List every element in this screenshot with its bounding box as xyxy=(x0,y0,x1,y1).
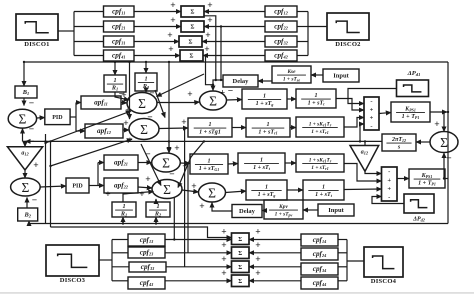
svg-text:−: − xyxy=(169,170,174,180)
svg-text:1 + sTt: 1 + sTt xyxy=(308,101,326,107)
wire diagonal into governor summer G1 xyxy=(157,74,205,97)
wire a12 right feed xyxy=(364,141,366,145)
junction xyxy=(168,140,170,142)
wire ptie branch vertical V1 xyxy=(45,134,47,224)
wire cpf42 to summer S4 xyxy=(203,55,265,57)
junction xyxy=(364,140,366,142)
svg-text:1 + sTt: 1 + sTt xyxy=(253,165,271,171)
wire governor1 to turbine1 xyxy=(287,98,296,100)
junction xyxy=(44,142,46,144)
wire splitter to apf22 xyxy=(98,185,104,187)
summer G1 xyxy=(127,93,157,114)
junction xyxy=(122,222,124,224)
block 1/R2 bottom xyxy=(146,202,170,218)
summer ACE1 xyxy=(8,109,36,128)
svg-text:+: + xyxy=(221,241,226,251)
svg-text:Delay: Delay xyxy=(239,208,256,215)
bottom summer B2 box xyxy=(232,247,250,259)
svg-text:Σ: Σ xyxy=(440,135,448,150)
wire cpf23 to bottom summer B2 xyxy=(165,252,232,254)
svg-text:R2: R2 xyxy=(154,211,162,218)
junction xyxy=(49,140,51,142)
svg-text:KPS1: KPS1 xyxy=(421,173,433,179)
svg-text:-: - xyxy=(370,98,372,105)
svg-text:1: 1 xyxy=(265,184,268,190)
wire apf11 to governor summer G1 xyxy=(121,102,127,105)
wire ptie into power summer1 xyxy=(360,124,364,141)
gain a12 right xyxy=(350,146,379,172)
junction xyxy=(168,61,170,63)
wire delta-Ptie left arrowhead xyxy=(26,140,35,142)
block governor Tg1 xyxy=(188,118,232,137)
wire bus to cpf23 xyxy=(112,252,128,254)
junction xyxy=(173,238,175,240)
wire ACE summer1 to PID1 xyxy=(37,117,45,120)
wire diagonal ptie to area2 summer xyxy=(178,141,204,187)
svg-text:+: + xyxy=(191,182,196,192)
wire cpf22 to summer S2 xyxy=(204,26,265,28)
svg-text:+: + xyxy=(181,118,186,128)
wire branch bus vertical xyxy=(73,12,75,56)
wire Tg1 to Tr1 xyxy=(232,127,246,129)
svg-text:−: − xyxy=(29,99,34,109)
block apf11 xyxy=(81,96,121,109)
svg-text:Σ: Σ xyxy=(162,155,170,170)
svg-text:+: + xyxy=(123,119,128,129)
wire PID2 splitter vertical xyxy=(97,163,99,186)
wire DISCO4 branch bus xyxy=(346,240,348,281)
block Input1 xyxy=(323,69,359,82)
block KPS2 xyxy=(409,169,445,188)
svg-text:+: + xyxy=(434,120,439,130)
svg-text:PID: PID xyxy=(72,184,83,190)
wire DISCO3 branch bus xyxy=(111,240,113,281)
wire a12 right to power summer2 xyxy=(365,171,382,173)
wire B2 up to ACE summer2 xyxy=(26,198,28,209)
wire turbine summer D to governor2 xyxy=(226,191,247,193)
svg-text:+: + xyxy=(33,161,38,171)
svg-text:Σ: Σ xyxy=(190,54,194,60)
svg-text:+: + xyxy=(255,241,260,251)
block turbine3 xyxy=(303,180,344,200)
wire delta-f1 right bus xyxy=(447,62,449,224)
source deltaPd2 step xyxy=(404,194,434,213)
power summer 1 xyxy=(364,97,379,130)
junction xyxy=(28,222,30,224)
svg-text:+: + xyxy=(387,185,391,192)
block cpf13 xyxy=(128,234,165,246)
svg-text:+: + xyxy=(387,177,391,184)
svg-text:R1: R1 xyxy=(111,85,118,92)
svg-text:1: 1 xyxy=(260,157,263,163)
svg-text:a12: a12 xyxy=(21,151,29,157)
wire PID2 to splitter xyxy=(89,185,98,187)
block reheat2 xyxy=(296,154,344,172)
wire ptie branch vertical V2 xyxy=(50,141,52,227)
svg-text:KPS1: KPS1 xyxy=(404,106,416,112)
wire 1/R1 bottom to summer 2B xyxy=(123,192,154,203)
wire bus to cpf11 xyxy=(74,11,103,13)
block Delay2 xyxy=(232,205,262,218)
svg-text:R1: R1 xyxy=(120,211,127,218)
wire summer S4 output drop xyxy=(206,56,214,85)
junction xyxy=(49,165,51,167)
wire bus to cpf33 xyxy=(112,266,129,268)
svg-text:-: - xyxy=(370,123,372,130)
svg-text:Σ: Σ xyxy=(238,279,242,285)
summer G2 xyxy=(129,119,159,140)
wire branch down from 2T output xyxy=(187,164,189,253)
wire summer 2T to block TG1 xyxy=(181,162,191,165)
block 1/R1 xyxy=(104,75,126,92)
wire Input2 to Kpv block xyxy=(303,209,318,211)
svg-text:−: − xyxy=(119,90,124,100)
svg-text:1: 1 xyxy=(122,203,125,210)
svg-text:+: + xyxy=(199,202,204,212)
svg-text:DISCO2: DISCO2 xyxy=(335,41,361,48)
wire delta-f2 into 1/R1 bottom xyxy=(122,217,124,224)
wire Tr1 to reheat1 xyxy=(290,127,296,129)
summer S3 box xyxy=(179,36,202,47)
summer A xyxy=(200,91,227,110)
wire apf22 to summer 2B xyxy=(138,187,152,188)
wire Delay2 to turbine summer D xyxy=(212,203,232,212)
wire cpf13 to bottom summer B1 xyxy=(165,239,232,241)
block 1/R2 xyxy=(135,73,157,91)
wire power summer1 to KPS1 xyxy=(379,113,391,114)
block tie line 2piT12/s xyxy=(382,134,416,151)
junction xyxy=(128,61,130,63)
wire diagonal to governor summer G1 xyxy=(46,111,132,143)
wire a12 to ACE summer 2 xyxy=(24,170,26,178)
wire DISCO4 to bus xyxy=(347,260,364,262)
wire tie summer to 2piT12 block xyxy=(416,141,430,143)
block cpf14 xyxy=(301,234,338,246)
wire delta-f1 into summer 2T xyxy=(168,141,170,153)
svg-text:−: − xyxy=(147,113,152,123)
scan edge artifact xyxy=(0,292,474,294)
svg-text:1 + sTr1: 1 + sTr1 xyxy=(311,165,328,171)
svg-text:+: + xyxy=(221,269,226,279)
wire bus to cpf41 xyxy=(74,55,103,57)
wire governor summer G2 to governor block Tg1 xyxy=(160,127,189,130)
svg-text:+: + xyxy=(207,1,212,11)
svg-text:+: + xyxy=(221,228,226,238)
wire delta-f1 down to governor summer G2 xyxy=(129,62,131,119)
junction xyxy=(155,222,157,224)
block Kpv xyxy=(264,200,303,219)
wire TG1 to turbine2 xyxy=(228,163,238,166)
junction xyxy=(443,111,445,113)
svg-text:1: 1 xyxy=(314,93,317,99)
summer 2T xyxy=(152,153,181,172)
svg-text:2πT12: 2πT12 xyxy=(391,137,406,143)
wire apf12 to governor summer G2 xyxy=(123,129,129,131)
junction xyxy=(447,111,449,113)
wire branch down from 2B rim xyxy=(173,197,175,240)
wire turbine summer A to governor 1 xyxy=(227,99,243,102)
wire DISCO2 to bus xyxy=(308,26,327,28)
svg-text:+: + xyxy=(370,115,374,122)
wire deltaPd2 to power summer2 xyxy=(372,197,404,204)
svg-text:Σ: Σ xyxy=(163,182,171,197)
wire bus to cpf34 xyxy=(338,266,347,268)
wire diagonal demand to area2 summer xyxy=(141,144,161,186)
wire bus to cpf43 xyxy=(112,280,128,282)
bottom summer B4 box xyxy=(232,275,250,287)
power summer 2 xyxy=(382,167,398,201)
wire splitter to apf12 xyxy=(76,130,85,132)
block B1 xyxy=(15,86,37,98)
block 1/R1 bottom xyxy=(112,202,136,218)
wire delta-Ptie down into a12 gain xyxy=(24,141,26,146)
wire cpf44 to bottom summer B4 xyxy=(249,280,301,282)
wire cpf11 to summer S1 xyxy=(134,11,181,13)
junction xyxy=(220,79,222,81)
wire cpf32 to summer S3 xyxy=(202,41,265,43)
junction xyxy=(443,177,445,179)
wire ACE summer2 to PID2 xyxy=(40,186,66,187)
svg-text:1: 1 xyxy=(322,184,325,190)
block cpf23 xyxy=(128,247,165,258)
wire 1/R2 to governor summer G1 xyxy=(145,91,147,93)
svg-text:+: + xyxy=(205,31,210,41)
junction xyxy=(183,127,185,129)
svg-text:+: + xyxy=(174,144,179,154)
source DISCO4 xyxy=(364,247,403,285)
wire delta-f1 down to summer of area2 governor xyxy=(168,62,170,152)
block Kse xyxy=(272,66,311,83)
wire bus to cpf24 xyxy=(338,252,347,254)
svg-text:Delay: Delay xyxy=(233,78,250,85)
wire bus to cpf44 xyxy=(338,280,347,282)
wire cpf14 to bottom summer B1 xyxy=(249,239,301,241)
wire Kpv block to Delay2 xyxy=(262,210,264,212)
block governor2 xyxy=(246,180,287,200)
svg-text:Σ: Σ xyxy=(208,185,216,200)
wire delta-f2 feedback line bottom xyxy=(29,223,448,225)
wire KPS2 output to bus xyxy=(445,178,448,180)
wire bus to cpf14 xyxy=(338,239,347,241)
block apf21 xyxy=(104,155,138,170)
wire splitter to apf21 xyxy=(98,162,104,164)
junction xyxy=(114,61,116,63)
wire bus to cpf32 xyxy=(297,41,308,43)
wire power summer2 to KPS2 xyxy=(397,178,409,180)
wire cpf43 to bottom summer B4 xyxy=(165,280,232,282)
wire cpf24 to bottom summer B2 xyxy=(249,252,301,254)
wire apf21 to summer 2T xyxy=(138,162,152,164)
wire reheat1 to power summer1 xyxy=(344,118,364,128)
block cpf43 xyxy=(128,277,165,289)
junction xyxy=(187,162,189,164)
svg-text:Σ: Σ xyxy=(189,40,193,46)
svg-text:DISCO3: DISCO3 xyxy=(60,277,86,284)
svg-text:1 + sTg: 1 + sTg xyxy=(256,101,274,107)
svg-text:1 + sTr1: 1 + sTr1 xyxy=(258,130,277,136)
block reheat1 xyxy=(296,117,344,137)
wire turbine1 to power summer1 xyxy=(336,99,364,111)
wire cpf34 to bottom summer B3 xyxy=(249,266,301,268)
wire cpf21 to summer S2 xyxy=(134,26,181,28)
block cpf44 xyxy=(301,277,338,289)
wire delta-f1 into 1/R1 xyxy=(114,62,116,75)
svg-text:Σ: Σ xyxy=(238,251,242,257)
svg-text:1 + sTg: 1 + sTg xyxy=(258,192,276,198)
wire summer S1 output drop xyxy=(204,16,216,80)
svg-text:−: − xyxy=(29,125,34,135)
junction xyxy=(215,79,217,81)
wire bus to cpf13 xyxy=(112,239,128,241)
svg-text:1 + sTt: 1 + sTt xyxy=(315,192,333,198)
wire bus to cpf42 xyxy=(297,55,308,57)
summer S1 box xyxy=(181,6,204,17)
svg-text:−: − xyxy=(149,89,154,99)
wire delta-Ptie line xyxy=(23,140,383,142)
svg-text:+: + xyxy=(170,16,175,26)
gain a12 left xyxy=(7,147,42,170)
wire cpf31 to summer S3 xyxy=(134,41,179,43)
block turbine2 xyxy=(238,153,285,173)
svg-text:1: 1 xyxy=(207,158,210,164)
wire delta-Ptie up into summer ACE1 xyxy=(22,129,24,142)
wire summer 2B to turbine summer D xyxy=(182,190,199,192)
svg-text:−: − xyxy=(145,150,150,160)
junction xyxy=(23,61,25,63)
svg-text:1 + TP1: 1 + TP1 xyxy=(418,181,436,187)
block governor1 xyxy=(242,89,287,109)
svg-text:1: 1 xyxy=(156,203,159,210)
block cpf22 xyxy=(265,21,297,32)
wire delta-f2 to tie summer xyxy=(443,153,445,179)
wire 1/R1 to governor summer G1 xyxy=(115,92,129,100)
block cpf41 xyxy=(104,50,135,61)
junction xyxy=(203,140,205,142)
wire splitter to apf11 xyxy=(76,102,81,104)
svg-text:1 + sKr1Tr: 1 + sKr1Tr xyxy=(309,121,332,127)
wire Input to Kse block xyxy=(311,74,323,76)
block B2 xyxy=(18,208,38,221)
svg-text:1 + TP1: 1 + TP1 xyxy=(402,114,420,120)
block cpf34 xyxy=(301,263,338,275)
wire Delay1 to turbine summer A xyxy=(213,80,223,91)
wire DISCO1 output to branch bus xyxy=(58,30,74,32)
block cpf24 xyxy=(301,248,338,260)
svg-text:DISCO1: DISCO1 xyxy=(24,41,49,48)
svg-text:Input: Input xyxy=(328,207,344,214)
svg-text:Σ: Σ xyxy=(191,10,195,16)
block Delay1 xyxy=(223,75,258,87)
svg-text:DISCO4: DISCO4 xyxy=(371,278,397,285)
svg-text:+: + xyxy=(167,31,172,41)
svg-text:1 + sTr1: 1 + sTr1 xyxy=(311,129,328,135)
svg-text:+: + xyxy=(105,190,110,200)
svg-text:1: 1 xyxy=(266,122,269,128)
svg-text:+: + xyxy=(255,255,260,265)
svg-text:+: + xyxy=(127,136,132,146)
block cpf31 xyxy=(104,36,135,47)
junction xyxy=(359,140,361,142)
wire turbine2 to reheat2 xyxy=(285,162,296,164)
svg-text:a12: a12 xyxy=(361,150,369,156)
block Input2 xyxy=(318,204,354,216)
wire bus to cpf31 xyxy=(74,41,103,43)
source DISCO2 xyxy=(327,13,369,48)
svg-text:+: + xyxy=(182,162,187,172)
junction xyxy=(44,140,46,142)
wire delta-f1 into B1 xyxy=(23,62,25,86)
block cpf33 xyxy=(129,262,166,272)
junction xyxy=(212,84,214,86)
svg-text:+: + xyxy=(125,106,130,116)
block cpf21 xyxy=(104,21,135,32)
svg-text:+: + xyxy=(220,89,225,99)
svg-text:B1: B1 xyxy=(22,89,29,96)
wire PID1 to splitter xyxy=(70,116,76,118)
wire B1 to ACE summer 1 xyxy=(23,98,25,106)
wire PID1 splitter vertical xyxy=(75,103,77,132)
wire DISCO2 branch bus xyxy=(307,12,309,56)
svg-text:-: - xyxy=(388,168,390,175)
wire Kse block to Delay1 xyxy=(258,80,272,82)
svg-text:1: 1 xyxy=(208,122,211,128)
svg-text:+: + xyxy=(255,228,260,238)
svg-text:Σ: Σ xyxy=(238,265,242,271)
wire governor2 to turbine3 xyxy=(287,189,303,191)
summer S4 box xyxy=(180,50,203,61)
block cpf11 xyxy=(104,6,135,17)
block cpf32 xyxy=(265,36,297,47)
junction xyxy=(204,54,206,56)
summer D xyxy=(199,183,226,202)
svg-text:+: + xyxy=(255,269,260,279)
wire delta-f1 into 1/R2 xyxy=(145,62,147,73)
source DISCO3 xyxy=(46,245,99,284)
svg-text:−: − xyxy=(32,196,37,206)
junction xyxy=(220,25,222,27)
source DISCO1 xyxy=(16,14,58,48)
wire delta-f2 into 1/R2 bottom xyxy=(155,217,157,224)
svg-text:1: 1 xyxy=(144,75,147,82)
wire delta-f1 feedback line xyxy=(24,61,448,63)
wire delta-f2 into B2 xyxy=(28,221,30,224)
junction xyxy=(145,61,147,63)
svg-text:Σ: Σ xyxy=(191,25,195,31)
svg-text:1 + sTg1: 1 + sTg1 xyxy=(199,130,221,136)
svg-text:B2: B2 xyxy=(23,212,31,219)
wire deltaPd1 to power summer1 xyxy=(348,89,397,104)
block apf12 xyxy=(85,124,123,138)
svg-text:Σ: Σ xyxy=(140,122,148,137)
summer ACE2 xyxy=(11,178,41,196)
svg-text:−: − xyxy=(446,154,451,164)
svg-text:+: + xyxy=(145,175,150,185)
block governor TG1 xyxy=(190,154,228,174)
svg-text:Σ: Σ xyxy=(138,96,146,111)
svg-text:+: + xyxy=(204,45,209,55)
svg-text:1 + sTG1: 1 + sTG1 xyxy=(199,166,220,172)
svg-text:Σ: Σ xyxy=(238,237,242,243)
svg-text:+: + xyxy=(187,90,192,100)
controller PID2 xyxy=(66,178,89,193)
svg-text:+: + xyxy=(170,1,175,11)
svg-text:1: 1 xyxy=(263,93,266,99)
block apf22 xyxy=(104,178,138,193)
svg-text:1 + sKr1Tr: 1 + sKr1Tr xyxy=(309,157,332,163)
block KPS1 xyxy=(391,102,430,122)
svg-text:Kse: Kse xyxy=(286,69,296,75)
wire KPS1 output to bus xyxy=(430,111,447,113)
